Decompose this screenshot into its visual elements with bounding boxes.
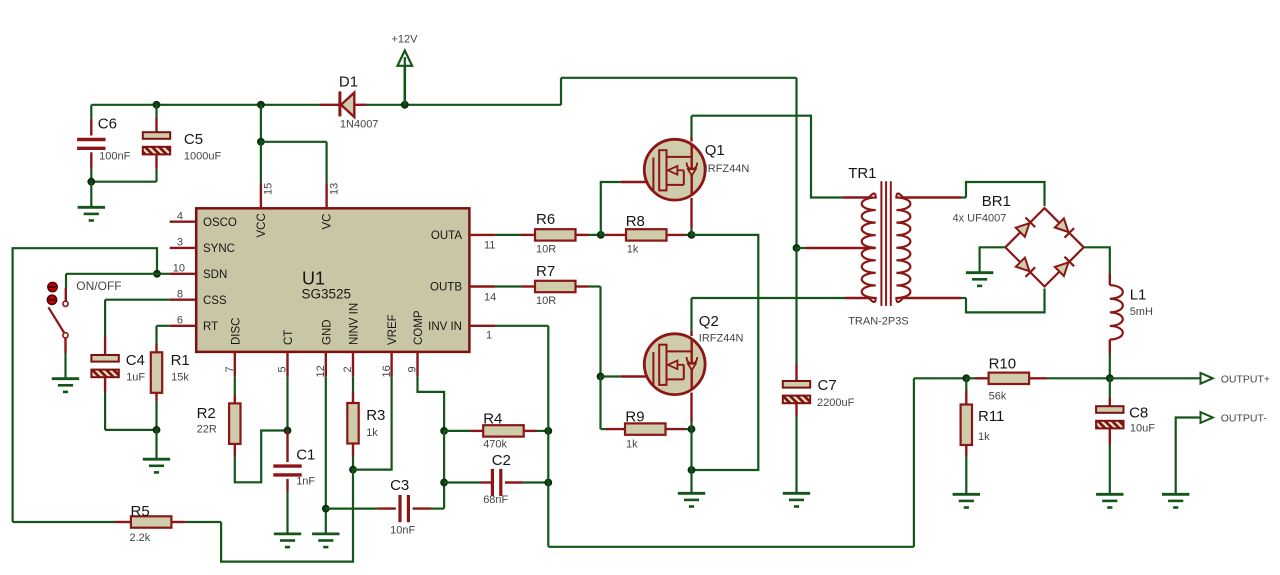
ground under C1	[274, 534, 301, 547]
svg-text:VC: VC	[322, 214, 334, 230]
svg-text:R1: R1	[171, 352, 190, 369]
pin 9 COMP stub	[416, 352, 418, 376]
svg-text:C1: C1	[296, 447, 315, 464]
svg-text:1: 1	[486, 329, 492, 341]
svg-text:OUTPUT+: OUTPUT+	[1221, 373, 1270, 385]
node CT/C1 junction	[284, 427, 291, 434]
svg-text:GND: GND	[321, 319, 333, 345]
wire riser to divider	[914, 377, 966, 379]
node C2 right junction	[545, 479, 552, 486]
node center tap junction	[793, 245, 800, 252]
svg-text:16: 16	[381, 365, 393, 377]
wire SDN row	[66, 273, 170, 275]
wire junction to ground	[155, 430, 157, 459]
svg-text:12: 12	[315, 365, 327, 377]
wire Q2 drain to primary bottom	[692, 297, 846, 299]
wire gate node down to R9	[599, 377, 601, 430]
ground under R1	[143, 459, 170, 472]
svg-text:SYNC: SYNC	[203, 243, 235, 255]
node R1/C4 ground junction	[153, 427, 160, 434]
bridge diode top-right	[1055, 218, 1069, 232]
pin 8 CSS stub	[170, 299, 197, 301]
svg-text:1000uF: 1000uF	[184, 151, 222, 163]
transformer TR1 core	[880, 181, 882, 306]
wire VREF elbow	[353, 376, 392, 469]
transformer TR1 secondary winding	[896, 194, 910, 303]
wire Q1 source lead	[690, 198, 692, 228]
svg-text:COMP: COMP	[413, 310, 425, 345]
svg-text:IRFZ44N: IRFZ44N	[699, 333, 744, 345]
svg-text:C8: C8	[1129, 405, 1148, 422]
wire top rail to transformer column	[561, 77, 797, 79]
node R4 left junction	[441, 428, 448, 435]
diode D1 1N4007	[320, 104, 340, 106]
wire VCC-VC bridge	[261, 141, 327, 143]
svg-text:DISC: DISC	[230, 318, 242, 345]
svg-text:SG3525: SG3525	[302, 287, 352, 302]
terminal OUTPUT+	[1201, 373, 1213, 384]
svg-text:R3: R3	[366, 407, 385, 424]
wire Q2 drain lead	[690, 331, 692, 336]
wire Q2 source node down	[690, 429, 692, 470]
node C6 bottom junction	[88, 178, 95, 185]
wire C6-C5 bottom bus	[91, 181, 156, 183]
svg-text:1uF: 1uF	[126, 372, 145, 384]
node +12V junction	[401, 101, 408, 108]
resistor R4 470k	[444, 430, 470, 432]
svg-text:BR1: BR1	[982, 193, 1011, 210]
svg-text:C3: C3	[390, 477, 409, 494]
wire Q1 drain lead	[690, 137, 692, 142]
svg-text:10R: 10R	[536, 244, 556, 256]
svg-text:R4: R4	[483, 411, 502, 428]
svg-text:R8: R8	[626, 213, 645, 230]
svg-text:10nF: 10nF	[390, 525, 415, 537]
svg-text:100nF: 100nF	[99, 151, 130, 163]
bridge diode top-left	[1016, 223, 1030, 237]
svg-text:C4: C4	[126, 352, 145, 369]
svg-text:5mH: 5mH	[1130, 306, 1153, 318]
wire source bus down right	[692, 235, 759, 470]
node Q2 source node	[688, 426, 695, 433]
inductor L1 5mH	[1109, 273, 1111, 285]
capacitor C3 10nF	[326, 508, 377, 510]
svg-text:14: 14	[484, 291, 496, 303]
svg-text:2.2k: 2.2k	[130, 532, 151, 544]
svg-text:8: 8	[177, 288, 183, 300]
svg-text:C5: C5	[184, 131, 203, 148]
svg-text:D1: D1	[339, 74, 358, 91]
wire bridge right to L1	[1084, 247, 1110, 273]
wire to ground	[90, 182, 92, 208]
transformer TR1 primary winding	[862, 194, 876, 303]
capacitor C8 10uF	[1109, 378, 1111, 398]
svg-text:CT: CT	[283, 330, 295, 345]
switch ON/OFF	[48, 282, 57, 291]
wire feedback bottom bus	[548, 546, 914, 548]
pin 5 CT stub	[286, 352, 288, 376]
svg-text:OUTPUT-: OUTPUT-	[1221, 412, 1268, 424]
svg-text:INV IN: INV IN	[428, 321, 462, 333]
pin 6 RT stub	[170, 325, 197, 327]
pin 3 SYNC stub	[170, 247, 197, 249]
node R4 right junction	[545, 428, 552, 435]
terminal OUTPUT-	[1201, 412, 1213, 423]
svg-text:1N4007: 1N4007	[340, 119, 379, 131]
wire VCC drop from rail	[258, 101, 265, 108]
wire RT row	[157, 325, 170, 327]
svg-text:Q2: Q2	[699, 313, 719, 330]
resistor R6 10R	[495, 234, 521, 236]
wire OUTB down to Q2 gate	[599, 287, 601, 377]
wire feedback riser	[913, 378, 915, 547]
svg-text:L1: L1	[1130, 287, 1147, 304]
pin 4 OSCO stub	[170, 220, 197, 222]
svg-text:RT: RT	[203, 321, 218, 333]
svg-text:NINV IN: NINV IN	[349, 303, 361, 345]
resistor R7 10R	[495, 285, 521, 287]
svg-text:10R: 10R	[536, 295, 556, 307]
svg-text:1k: 1k	[626, 439, 638, 451]
wire INV IN feedback column	[495, 325, 548, 327]
node sources ground junction	[688, 467, 695, 474]
svg-text:7: 7	[224, 366, 236, 372]
wire OUTPUT- to ground	[1176, 418, 1201, 495]
wire R2 bottom elbow to CT node	[235, 431, 288, 483]
ground under C7	[783, 493, 810, 506]
svg-text:22R: 22R	[197, 424, 217, 436]
wire Q1 drain to primary top	[692, 116, 844, 198]
pin 11 OUTA stub	[469, 234, 495, 236]
ground under GND pin	[312, 534, 339, 547]
capacitor C7 2200uF	[795, 248, 797, 364]
ground under C6	[78, 207, 105, 220]
svg-text:1k: 1k	[978, 431, 990, 443]
pin 10 SDN stub	[170, 273, 197, 275]
node VCC/VC junction	[258, 138, 265, 145]
pin 2 NINV IN stub	[352, 352, 354, 376]
node R10 left junction	[963, 375, 970, 382]
svg-text:OUTA: OUTA	[431, 230, 462, 242]
resistor R1 15k	[155, 326, 157, 344]
svg-text:R5: R5	[131, 503, 150, 520]
pin 14 OUTB stub	[469, 285, 495, 287]
svg-text:1nF: 1nF	[296, 476, 315, 488]
node Q1 source node	[688, 232, 695, 239]
node C2 left junction	[441, 479, 448, 486]
pin 15 VCC stub	[260, 184, 262, 209]
svg-text:TRAN-2P3S: TRAN-2P3S	[848, 316, 909, 328]
wire Q2 gate lead	[601, 375, 621, 377]
resistor R3 1k	[352, 376, 354, 392]
svg-text:R7: R7	[536, 263, 555, 280]
svg-text:CSS: CSS	[203, 295, 227, 307]
capacitor C5 1000uF electrolytic	[153, 101, 160, 108]
ground under bridge	[966, 273, 993, 286]
capacitor C1 1nF	[286, 431, 288, 463]
bridge rectifier BR1 4x UF4007	[1005, 208, 1083, 286]
svg-text:R9: R9	[625, 409, 644, 426]
resistor R2 22R	[234, 376, 236, 395]
transistor Q1 IRFZ44N	[644, 139, 705, 200]
svg-text:470k: 470k	[483, 439, 507, 451]
svg-text:2: 2	[342, 366, 354, 372]
bridge diode bottom-left	[1016, 258, 1030, 272]
wire C3 right riser	[443, 483, 445, 509]
resistor R8 1k	[601, 234, 606, 236]
wire secondary bottom to bridge	[903, 297, 961, 299]
node SDN junction	[154, 270, 161, 277]
svg-text:C6: C6	[98, 115, 117, 132]
wire C4 bottom to R1 junction	[105, 429, 156, 431]
node OUTPUT+ junction	[1106, 375, 1113, 382]
resistor R5 2.2k	[186, 521, 222, 523]
ground under R11	[953, 494, 980, 507]
svg-text:C7: C7	[818, 377, 837, 394]
ground under C8	[1096, 494, 1123, 507]
bridge diode bottom-right	[1055, 262, 1069, 276]
pin 1 INV IN stub	[469, 325, 495, 327]
svg-text:11: 11	[484, 240, 495, 252]
node Q1 gate node	[597, 232, 604, 239]
svg-text:VREF: VREF	[387, 314, 399, 345]
svg-text:2200uF: 2200uF	[817, 397, 855, 409]
svg-text:68nF: 68nF	[483, 494, 508, 506]
op-amp U1 SG3525 body	[196, 208, 469, 352]
svg-text:10uF: 10uF	[1130, 423, 1155, 435]
wire to mosfet ground	[690, 470, 692, 493]
ground under OUTPUT-	[1162, 494, 1189, 507]
svg-text:SDN: SDN	[203, 269, 227, 281]
svg-text:R10: R10	[989, 356, 1017, 373]
wire switch top lead	[65, 274, 67, 288]
svg-text:R2: R2	[197, 405, 216, 422]
svg-text:VCC: VCC	[256, 213, 268, 237]
wire R4-C2 left riser	[443, 431, 445, 483]
wire to OUTPUT+ terminal	[1110, 377, 1201, 379]
wire corner up	[560, 78, 562, 105]
svg-text:C2: C2	[492, 452, 511, 469]
capacitor C2 68nF	[444, 481, 480, 483]
wire COMP elbow	[418, 376, 445, 431]
wire VCC vertical	[260, 142, 262, 184]
power symbol +12V	[403, 55, 406, 105]
svg-text:+12V: +12V	[392, 34, 419, 46]
svg-text:4x UF4007: 4x UF4007	[953, 213, 1007, 225]
pin 12 GND stub	[325, 352, 327, 376]
wire NINV down to bottom bus	[221, 470, 353, 562]
wire CT vertical	[286, 376, 288, 430]
resistor R11 1k	[965, 378, 967, 391]
svg-text:56k: 56k	[989, 391, 1007, 403]
node R3/VREF junction	[350, 466, 357, 473]
svg-text:4: 4	[177, 210, 183, 222]
pin 7 DISC stub	[234, 352, 236, 376]
svg-text:10: 10	[173, 262, 185, 274]
wire center tap lead	[797, 247, 807, 249]
svg-text:3: 3	[177, 237, 183, 249]
svg-text:R11: R11	[978, 408, 1004, 425]
node Q2 gate node	[597, 373, 604, 380]
pin 13 VC stub	[325, 184, 327, 209]
svg-text:ON/OFF: ON/OFF	[76, 279, 121, 293]
node GND/C3 junction	[322, 505, 329, 512]
svg-text:9: 9	[407, 366, 419, 372]
svg-text:Q1: Q1	[705, 142, 725, 159]
wire Q1 gate elbow	[601, 182, 621, 235]
wire GND pin vertical	[325, 376, 327, 534]
svg-text:TR1: TR1	[848, 165, 876, 182]
ground under mosfets	[678, 493, 705, 506]
resistor R10 56k	[966, 377, 975, 379]
wire down to center tap	[795, 78, 797, 248]
pin 16 VREF stub	[390, 352, 392, 376]
svg-text:6: 6	[177, 314, 183, 326]
capacitor C6 100nF	[90, 105, 92, 119]
transistor Q2 IRFZ44N	[644, 334, 705, 395]
svg-text:5: 5	[277, 366, 289, 372]
capacitor C4 1uF	[104, 300, 106, 337]
wire CSS row	[105, 299, 170, 301]
wire bridge left to ground	[980, 247, 1006, 272]
resistor R9 1k	[601, 428, 607, 430]
svg-text:13: 13	[328, 183, 340, 195]
svg-text:15k: 15k	[171, 372, 189, 384]
ground under switch	[52, 379, 79, 392]
wire D1 cathode to +12V junction to corner	[366, 104, 561, 106]
svg-text:IRFZ44N: IRFZ44N	[705, 163, 750, 175]
svg-text:R6: R6	[536, 211, 555, 228]
wire Q2 source lead	[690, 393, 692, 423]
wire secondary top to bridge	[903, 196, 961, 198]
wire SDN loop top	[13, 248, 157, 522]
svg-text:OUTB: OUTB	[430, 282, 462, 294]
svg-text:1k: 1k	[627, 244, 639, 256]
svg-text:U1: U1	[302, 269, 325, 289]
svg-text:1k: 1k	[366, 427, 378, 439]
wire switch bottom lead	[64, 338, 66, 353]
svg-text:15: 15	[263, 183, 275, 195]
wire +12V rail top left	[91, 104, 319, 106]
svg-text:OSCO: OSCO	[203, 217, 237, 229]
